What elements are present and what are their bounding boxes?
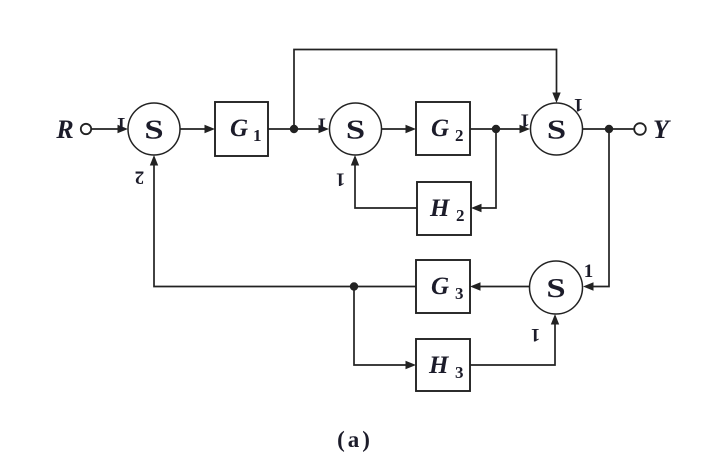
wire R terminal to summer S1	[92, 125, 129, 133]
block G2	[416, 102, 470, 155]
svg-text:3: 3	[455, 284, 464, 303]
svg-text:1: 1	[253, 126, 262, 145]
wire G3 to S1 bottom (outer feedback)	[150, 155, 416, 287]
svg-text:2: 2	[455, 126, 464, 145]
svg-text:1: 1	[117, 113, 127, 134]
svg-text:2: 2	[135, 167, 145, 188]
svg-text:G: G	[230, 115, 248, 142]
svg-text:3: 3	[455, 363, 464, 382]
svg-text:(a): (a)	[337, 427, 373, 452]
svg-text:G: G	[431, 115, 449, 142]
output terminal circle Y	[634, 123, 646, 135]
summing junction S4	[530, 261, 583, 314]
wire G1 to summer S2	[268, 125, 329, 133]
svg-text:H: H	[428, 352, 450, 379]
block H2	[417, 182, 471, 235]
wire H3 to S4 bottom	[470, 314, 559, 365]
svg-text:Y: Y	[653, 115, 671, 144]
input terminal circle R	[81, 124, 91, 134]
svg-text:1: 1	[531, 324, 541, 345]
summing junction S2	[330, 103, 382, 155]
wire H2 to S2 bottom	[351, 155, 417, 208]
wire S3 to output terminal	[583, 128, 635, 130]
summing junction S3	[531, 103, 583, 155]
wire G2 to summer S3	[470, 125, 530, 133]
wire feedback node down to H3 input	[354, 287, 416, 370]
svg-text:S: S	[546, 273, 565, 303]
svg-text:1: 1	[336, 169, 346, 190]
block G1	[215, 102, 268, 156]
wire output node down to S4 right input	[583, 129, 609, 291]
summing junction S1	[128, 103, 180, 155]
wire node after G2 down to H2 input	[471, 129, 496, 212]
svg-text:S: S	[346, 114, 365, 144]
node on outer feedback line	[350, 282, 358, 290]
feedforward wire from node after G1 to S3 top	[294, 50, 561, 130]
wire S1 to block G1	[180, 125, 215, 133]
svg-text:1: 1	[520, 110, 530, 131]
svg-text:1: 1	[584, 261, 594, 282]
svg-text:G: G	[431, 273, 449, 300]
node at output	[605, 125, 613, 133]
block H3	[416, 339, 470, 391]
svg-text:1: 1	[574, 94, 584, 115]
svg-text:H: H	[429, 195, 451, 222]
wire S2 to block G2	[382, 125, 417, 133]
svg-text:S: S	[547, 114, 566, 144]
block G3	[416, 260, 470, 313]
svg-text:R: R	[55, 115, 73, 144]
svg-text:1: 1	[317, 114, 327, 135]
node after G2	[492, 125, 500, 133]
svg-text:2: 2	[456, 206, 465, 225]
node after G1	[290, 125, 298, 133]
svg-text:S: S	[144, 114, 163, 144]
wire S4 to block G3	[470, 282, 530, 290]
